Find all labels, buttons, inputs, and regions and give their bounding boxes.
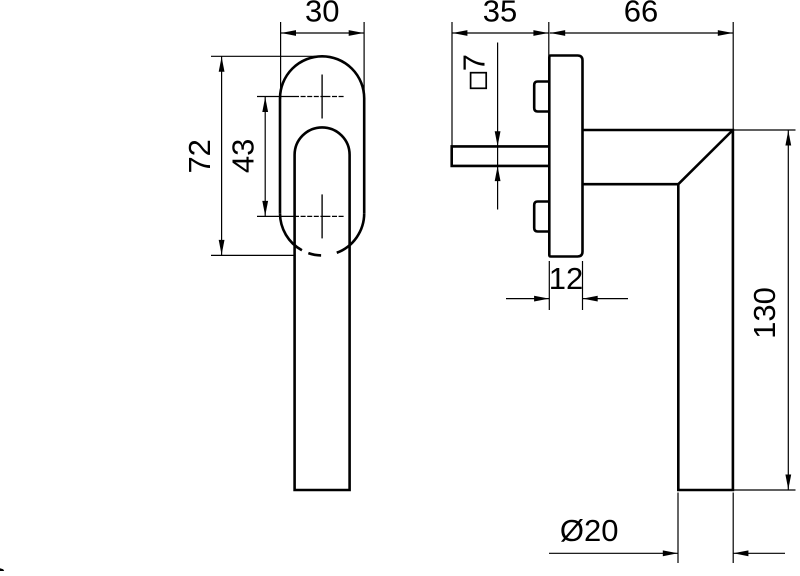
svg-text:130: 130 xyxy=(747,287,782,339)
dimension square 7 (spindle size) xyxy=(497,43,499,210)
handle neck and grip (front view) xyxy=(295,127,350,490)
rosette outline (front view, oval 30x72) xyxy=(280,56,364,213)
miter line of handle bend xyxy=(678,130,733,184)
svg-text:7: 7 xyxy=(456,54,491,71)
dimension 130 (grip length) xyxy=(733,129,796,131)
dimension 12 (plate thickness) xyxy=(548,261,550,310)
lower fixing boss xyxy=(534,202,549,232)
svg-text:35: 35 xyxy=(483,0,517,29)
square spindle (side view) xyxy=(452,146,550,166)
dimension 66 (plate face to grip outside) xyxy=(732,22,734,129)
dimension 35 (spindle length) xyxy=(451,22,453,146)
center mark, upper screw hole xyxy=(321,75,323,119)
svg-text:43: 43 xyxy=(225,139,260,173)
stray mark bottom-left corner xyxy=(0,568,4,571)
center mark, lower screw hole xyxy=(321,194,323,238)
svg-text:72: 72 xyxy=(182,139,217,173)
handle arm and grip (side view, L-shape with 45-degree miter) xyxy=(583,130,733,490)
svg-text:66: 66 xyxy=(624,0,658,29)
dimension 43 (screw hole spacing) xyxy=(264,97,266,217)
rosette bottom arc, partially hidden (dashed) behind handle neck xyxy=(280,213,364,255)
rosette plate (side view) xyxy=(549,56,582,257)
dimension diameter 20 (grip width) xyxy=(677,493,679,564)
svg-text:Ø20: Ø20 xyxy=(560,513,619,548)
square symbol of dimension 7 xyxy=(471,73,487,89)
dimension 72 (rosette height) xyxy=(211,55,321,57)
svg-text:30: 30 xyxy=(305,0,339,29)
dimension 30 (rosette width) xyxy=(280,22,282,99)
upper fixing boss xyxy=(534,82,549,112)
svg-text:12: 12 xyxy=(549,261,583,296)
